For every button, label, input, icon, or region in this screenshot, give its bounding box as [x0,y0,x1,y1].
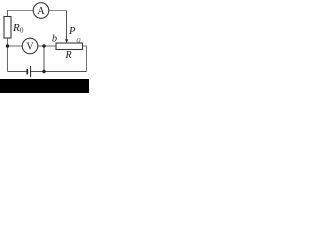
wire voltmeter row [8,45,57,47]
ammeter A1 [33,3,49,19]
node junction left (voltmeter tap) [6,44,9,47]
battery cell positive long plate [30,66,32,77]
node junction bottom [42,70,45,73]
battery cell negative short plate [26,69,28,74]
wire voltmeter branch down [43,46,45,72]
svg-text:a: a [76,36,81,46]
svg-text:V: V [26,42,34,53]
wire bottom left of battery [8,71,27,73]
wire right branch [83,46,87,72]
background [0,0,89,93]
wire slider vertical [66,11,68,40]
svg-text:A: A [37,6,45,17]
svg-text:P: P [68,26,76,37]
wire left vertical [7,10,9,72]
svg-text:0: 0 [20,27,24,35]
svg-text:b: b [52,34,57,45]
slider arrow P [65,39,68,43]
wire top (battery+ loop top) [8,10,67,12]
svg-text:R: R [12,22,20,34]
node junction mid (voltmeter to bottom) [42,44,45,47]
resistor R0 box [4,17,11,39]
wire bottom right of battery [31,71,87,73]
black strip bottom [0,79,89,93]
voltmeter V1 [22,38,38,54]
svg-text:R: R [65,50,72,61]
rheostat R box [56,43,83,50]
